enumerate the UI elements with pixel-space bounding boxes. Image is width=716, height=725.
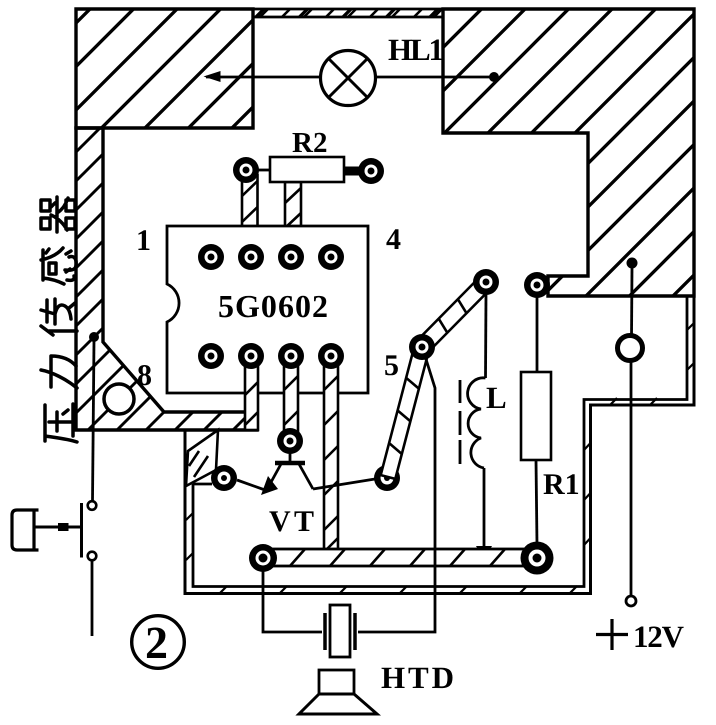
- copper thin strip above lamp notch: [253, 9, 443, 17]
- pad node mid (pin5 net): [409, 334, 435, 360]
- resistor R1: [521, 296, 580, 545]
- hatch ticks in edge trace channel: [186, 323, 694, 593]
- transistor VT: [237, 452, 375, 538]
- trace IC pin6 down to VT base pad: [284, 358, 298, 436]
- speaker horn HTD: [299, 660, 454, 714]
- mounting hole in left copper wedge: [104, 384, 134, 414]
- pad VT base: [277, 428, 303, 454]
- bottom ground strip trace: [263, 549, 537, 566]
- svg-text:L: L: [486, 380, 507, 415]
- svg-text:4: 4: [386, 223, 401, 256]
- IC pads bottom row pins 8-5: [198, 343, 344, 369]
- pressure switch contacts: [82, 501, 97, 560]
- wire below switch: [91, 561, 94, 637]
- diagonal trace lower (pad to pad): [381, 345, 430, 479]
- +12V junction dot on copper: [627, 258, 638, 269]
- pressure switch button: [12, 510, 80, 550]
- trace IC pin7 down to left strip: [245, 358, 258, 430]
- figure number 2 circled: [132, 616, 185, 669]
- svg-text:2: 2: [145, 617, 168, 668]
- wire +12V down: [631, 268, 632, 597]
- piezo element HTD: [325, 605, 355, 657]
- pad VT emitter (left): [211, 465, 237, 491]
- board edge double-line outer (bottom): [185, 296, 694, 594]
- wire VT emitter pad to edge trace: [193, 483, 212, 486]
- svg-text:R2: R2: [292, 127, 327, 159]
- svg-text:HTD: HTD: [381, 660, 454, 695]
- wire HL1 lamp horizontal: [204, 71, 500, 82]
- resistor R2: [256, 127, 362, 182]
- wire piezo right lead to pin5 pad: [358, 356, 435, 632]
- copper left band with wedge and strip: [76, 128, 257, 430]
- pad ground left: [249, 544, 277, 572]
- svg-text:R1: R1: [543, 468, 580, 501]
- svg-text:1: 1: [136, 224, 151, 257]
- wire from copper band to pressure switch: [93, 340, 95, 501]
- wire piezo left lead: [263, 570, 322, 632]
- pad node top (L feed): [473, 269, 499, 295]
- pad ground right: [521, 542, 554, 575]
- diagonal trace upper (pad to pad): [416, 276, 491, 352]
- lamp HL1: [321, 32, 445, 106]
- inductor L: [460, 294, 507, 560]
- svg-text:12V: 12V: [633, 619, 685, 654]
- trace from R2 body to IC pin (vertical bar): [285, 182, 301, 252]
- pad VT collector (right): [374, 465, 400, 491]
- junction dot on left band copper: [89, 332, 99, 342]
- +12V terminal: [596, 596, 685, 654]
- trace IC pin5 down to bottom strip: [324, 358, 338, 552]
- copper plane top-left block: [76, 9, 253, 128]
- pad R1 top: [524, 272, 550, 298]
- pad ring on +12V wire: [618, 336, 643, 361]
- svg-text:8: 8: [137, 359, 152, 392]
- svg-text:5G0602: 5G0602: [218, 288, 328, 324]
- board edge trace inner line: [193, 297, 687, 587]
- IC pads top row pins 1-4: [198, 244, 344, 270]
- copper plane top-right block: [443, 9, 694, 296]
- svg-text:HL1: HL1: [388, 32, 444, 67]
- trace from R2 left pad to IC pin (vertical bar): [242, 175, 258, 252]
- diagonal trace from left strip to VT emitter pad: [186, 430, 218, 486]
- svg-text:5: 5: [384, 349, 399, 382]
- IC U1 5G0602 box: [167, 226, 368, 393]
- pad R2 left: [233, 157, 259, 183]
- label pressure sensor (vertical hand-drawn glyphs): [41, 197, 77, 442]
- pad R2 right: [358, 158, 384, 184]
